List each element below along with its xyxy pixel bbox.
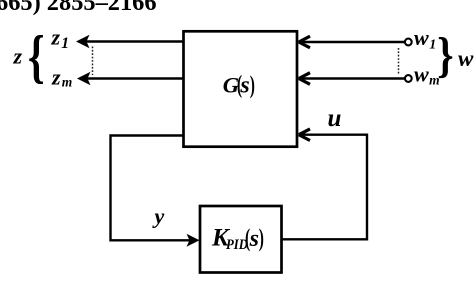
svg-text:w1: w1: [414, 25, 436, 53]
dotted ellipsis between w1 and wm: [398, 48, 400, 74]
right brace for w: [437, 27, 453, 82]
arrowhead z1 output: [76, 35, 90, 48]
wire z1: [85, 40, 184, 42]
wire w1: [299, 41, 406, 43]
arrowhead u into G(s): [299, 129, 310, 141]
arrowhead zm output: [77, 72, 91, 85]
label K_PID(s) : ): [259, 225, 264, 253]
wire zm: [86, 77, 184, 79]
svg-text:wm: wm: [414, 62, 440, 88]
svg-text:665) 2855–2166: 665) 2855–2166: [0, 0, 157, 16]
svg-text:w: w: [458, 46, 474, 71]
wire wm: [299, 77, 406, 79]
arrowhead y into K_PID(s): [187, 234, 200, 247]
svg-text:}: }: [437, 27, 453, 82]
block K_PID(s) controller: [200, 206, 282, 273]
svg-text:u: u: [328, 105, 342, 132]
label K_PID(s) : PID subscript: [226, 237, 248, 253]
wire u feedback (controller output up to plant): [282, 135, 368, 240]
dotted ellipsis between z1 and zm: [92, 47, 94, 76]
left brace for z: [28, 24, 45, 89]
label K_PID(s) : (: [245, 224, 250, 252]
svg-text:y: y: [152, 204, 165, 229]
arrowhead w1 into G(s): [299, 36, 310, 48]
terminal circle wm: [405, 75, 412, 82]
label G(s) : ): [250, 71, 255, 99]
wire y feedback (plant output down to controller): [111, 136, 194, 241]
svg-text:s: s: [239, 73, 249, 99]
svg-text:): ): [250, 71, 255, 99]
label G(s) : (: [237, 71, 242, 99]
svg-text:z: z: [13, 43, 23, 68]
arrowhead wm into G(s): [299, 73, 310, 85]
terminal circle w1: [405, 39, 412, 46]
block G(s) plant: [184, 31, 298, 146]
svg-text:z1: z1: [51, 25, 70, 53]
svg-text:{: {: [28, 24, 45, 89]
svg-text:s: s: [249, 226, 259, 252]
svg-text:zm: zm: [51, 64, 72, 89]
svg-text:): ): [259, 225, 264, 253]
